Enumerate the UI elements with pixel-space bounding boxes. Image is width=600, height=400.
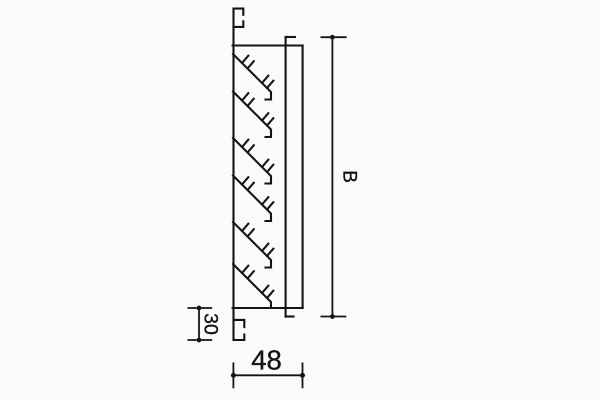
- frame back member vertical: [232, 9, 234, 341]
- louver blade 4: [233, 176, 273, 222]
- svg-text:48: 48: [251, 344, 282, 375]
- louver blade 2: [233, 92, 273, 138]
- louver blade 1: [233, 54, 273, 100]
- dim B line: [331, 37, 333, 316]
- dim B extension line bottom: [321, 316, 347, 318]
- top mounting clip: [234, 9, 244, 27]
- face plate outer edge: [285, 37, 287, 317]
- frame top flange: [233, 44, 303, 46]
- bottom mounting clip: [234, 320, 245, 340]
- dim 30 extension line top: [188, 307, 213, 309]
- face plate inner edge: [302, 46, 304, 309]
- louver blade 6: [233, 264, 273, 308]
- face plate bottom lip: [286, 315, 294, 317]
- dim 48 dot right: [300, 373, 305, 378]
- dim 48 dot left: [231, 373, 236, 378]
- dim 30 extension line bottom: [188, 339, 213, 341]
- dim 48 extension line left: [232, 363, 234, 389]
- frame bottom flange: [233, 307, 303, 309]
- dim B extension line top: [321, 36, 347, 38]
- dim B dot bottom: [330, 314, 335, 319]
- dim 30 dot top: [197, 306, 202, 311]
- dim B dot top: [330, 35, 335, 40]
- dim 30 dot bottom: [197, 338, 202, 343]
- svg-text:B: B: [339, 170, 360, 183]
- dim 48 line: [233, 374, 302, 376]
- dim 30 line: [198, 308, 200, 340]
- svg-text:30: 30: [200, 313, 222, 335]
- dim 48 extension line right: [302, 363, 304, 389]
- louver blade 5: [233, 222, 273, 268]
- face plate top lip: [286, 36, 295, 38]
- louver blade 3: [233, 138, 273, 184]
